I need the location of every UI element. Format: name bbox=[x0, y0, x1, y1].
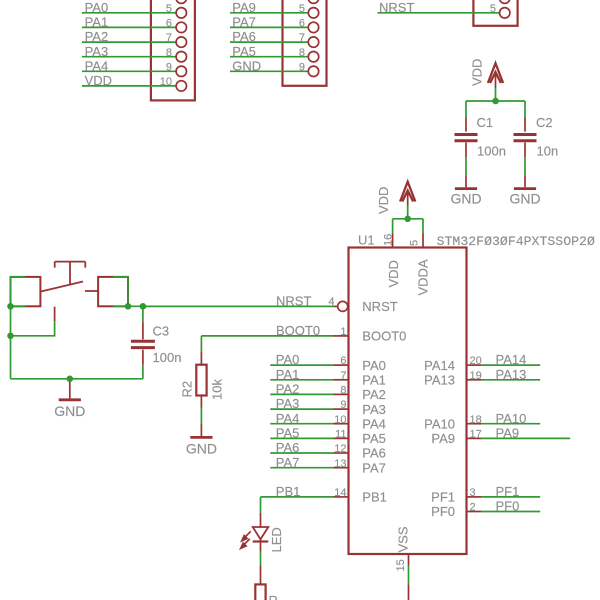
svg-text:9: 9 bbox=[166, 61, 172, 73]
wire PA3 J1 bbox=[82, 56, 176, 58]
wire PA5 J2 bbox=[230, 56, 308, 58]
wire VDD rail to caps bbox=[466, 88, 525, 117]
svg-text:PF0: PF0 bbox=[431, 504, 455, 519]
svg-text:PF1: PF1 bbox=[496, 484, 520, 499]
wire PB1 net bbox=[261, 497, 334, 513]
J3 pin circles bbox=[500, 0, 510, 18]
svg-text:C2: C2 bbox=[536, 115, 553, 130]
svg-text:PA6: PA6 bbox=[362, 446, 386, 461]
svg-text:PA6: PA6 bbox=[232, 29, 256, 44]
wire PA1 J1 bbox=[82, 26, 176, 28]
svg-text:PA7: PA7 bbox=[276, 455, 300, 470]
svg-text:PB1: PB1 bbox=[362, 490, 387, 505]
svg-text:2: 2 bbox=[470, 502, 476, 514]
svg-text:PA7: PA7 bbox=[232, 15, 256, 30]
svg-text:PA5: PA5 bbox=[232, 44, 256, 59]
svg-text:PA1: PA1 bbox=[276, 367, 300, 382]
svg-text:PA5: PA5 bbox=[276, 426, 300, 441]
resistor R2 bbox=[196, 352, 206, 408]
switch S1 left contact pad bbox=[11, 277, 41, 306]
wire BOOT0 net bbox=[201, 336, 333, 352]
svg-text:PF1: PF1 bbox=[431, 490, 455, 505]
svg-text:9: 9 bbox=[299, 61, 305, 73]
svg-text:PA4: PA4 bbox=[276, 411, 300, 426]
svg-text:PA2: PA2 bbox=[85, 29, 109, 44]
svg-text:6: 6 bbox=[340, 355, 346, 367]
svg-text:5: 5 bbox=[299, 3, 305, 15]
ground GND3 bbox=[59, 382, 81, 400]
wire GND J2 bbox=[230, 70, 308, 72]
connector J2 bbox=[283, 0, 327, 86]
svg-text:PA3: PA3 bbox=[362, 402, 386, 417]
J2 pin circles bbox=[308, 0, 318, 77]
switch S1 lever bbox=[40, 282, 83, 292]
switch S1 right contact stub bbox=[85, 290, 98, 292]
wire switch right loop bbox=[113, 277, 143, 306]
wire PA13 bbox=[482, 379, 541, 381]
wire VSS down bbox=[408, 566, 410, 585]
wire PA4 J1 bbox=[82, 70, 176, 72]
junction left rail a bbox=[7, 303, 14, 310]
svg-text:VDDA: VDDA bbox=[415, 259, 430, 295]
junction bottom rail bbox=[67, 376, 74, 383]
svg-text:10k: 10k bbox=[209, 379, 224, 400]
LED D1 bbox=[253, 513, 269, 552]
svg-text:6: 6 bbox=[166, 18, 172, 30]
svg-text:PA7: PA7 bbox=[362, 460, 386, 475]
wire PA6 J2 bbox=[230, 41, 308, 43]
junction VDD U1 bbox=[404, 216, 411, 223]
svg-text:PA1: PA1 bbox=[85, 15, 109, 30]
wire PA7 stub bbox=[270, 467, 333, 469]
svg-text:VDD: VDD bbox=[386, 260, 401, 287]
svg-text:10: 10 bbox=[160, 76, 172, 88]
svg-text:R2: R2 bbox=[179, 381, 194, 398]
switch S1 pole pin bbox=[54, 307, 56, 322]
wire PA6 stub bbox=[270, 452, 333, 454]
svg-text:PA0: PA0 bbox=[362, 358, 386, 373]
wire PA10 bbox=[482, 423, 541, 425]
svg-text:14: 14 bbox=[334, 487, 346, 499]
power VDD symbol P1 bbox=[488, 63, 503, 88]
svg-text:PA14: PA14 bbox=[496, 352, 527, 367]
svg-text:GND: GND bbox=[186, 441, 217, 457]
svg-text:PA14: PA14 bbox=[424, 358, 455, 373]
wire C2 to GND bbox=[524, 157, 526, 175]
J1 pin numbers 5-10 bbox=[160, 3, 172, 88]
svg-text:7: 7 bbox=[340, 370, 346, 382]
svg-text:STM32FØ3ØF4PXTSSOP2Ø: STM32FØ3ØF4PXTSSOP2Ø bbox=[437, 234, 595, 249]
ground GND1 bbox=[455, 176, 477, 189]
wire PA1 stub bbox=[270, 379, 333, 381]
svg-text:PA9: PA9 bbox=[496, 426, 520, 441]
connector J1 bbox=[151, 0, 195, 100]
svg-text:5: 5 bbox=[408, 240, 420, 246]
svg-text:GND: GND bbox=[450, 191, 481, 207]
svg-text:PA6: PA6 bbox=[276, 440, 300, 455]
svg-text:18: 18 bbox=[470, 414, 482, 426]
svg-text:20: 20 bbox=[470, 355, 482, 367]
capacitor C2 bbox=[514, 117, 537, 157]
wire VDD to U1 bbox=[393, 205, 423, 234]
ground GND2 bbox=[514, 176, 536, 189]
ground pin below VSS bbox=[408, 584, 410, 600]
svg-text:PA10: PA10 bbox=[496, 411, 527, 426]
switch S1 plunger bbox=[55, 262, 86, 285]
U1 right pin stubs bbox=[467, 365, 482, 511]
ground GND4 bbox=[190, 424, 212, 438]
svg-text:PA0: PA0 bbox=[85, 0, 109, 15]
J1 net labels bbox=[85, 0, 112, 88]
svg-text:8: 8 bbox=[340, 385, 346, 397]
wire PA3 stub bbox=[270, 408, 333, 410]
chip U1 outline bbox=[349, 248, 467, 555]
wire LED to R1 bbox=[260, 552, 262, 566]
U1 right pin names bbox=[424, 358, 455, 519]
connector J3 bbox=[473, 0, 517, 26]
svg-text:13: 13 bbox=[334, 458, 346, 470]
svg-text:C3: C3 bbox=[153, 324, 170, 339]
power VDD symbol P2 bbox=[400, 182, 415, 207]
wire PF1 bbox=[482, 496, 541, 498]
U1 left pin names bbox=[362, 299, 406, 505]
svg-text:7: 7 bbox=[299, 32, 305, 44]
wire PA9 bbox=[482, 437, 571, 439]
wire R2 to GND bbox=[200, 408, 202, 424]
resistor R1 bbox=[255, 566, 265, 600]
capacitor C3 bbox=[131, 322, 155, 365]
svg-text:PA13: PA13 bbox=[424, 373, 455, 388]
svg-text:BOOT0: BOOT0 bbox=[362, 329, 406, 344]
wire PA0 J1 bbox=[82, 12, 176, 14]
wire VDD J1 bbox=[82, 85, 176, 87]
svg-text:10: 10 bbox=[334, 414, 346, 426]
svg-text:PF0: PF0 bbox=[496, 499, 520, 514]
wire PA5 stub bbox=[270, 437, 333, 439]
wire PA0 stub bbox=[270, 364, 333, 366]
svg-text:11: 11 bbox=[335, 429, 346, 441]
wire PF0 bbox=[482, 511, 541, 513]
wire NRST J3 bbox=[378, 12, 500, 14]
U1 left pin stubs bbox=[334, 306, 349, 497]
wire PA2 J1 bbox=[82, 41, 176, 43]
right net labels bbox=[496, 352, 527, 513]
svg-text:100n: 100n bbox=[477, 144, 506, 159]
svg-text:8: 8 bbox=[299, 47, 305, 59]
svg-text:PA3: PA3 bbox=[276, 396, 300, 411]
U1 top pin stubs bbox=[393, 234, 423, 248]
svg-text:100n: 100n bbox=[153, 350, 182, 365]
wire NRST net bbox=[143, 305, 334, 307]
svg-text:PA9: PA9 bbox=[232, 0, 256, 15]
svg-text:7: 7 bbox=[166, 32, 172, 44]
wire PA4 stub bbox=[270, 423, 333, 425]
svg-text:3: 3 bbox=[470, 487, 476, 499]
svg-text:12: 12 bbox=[334, 443, 346, 455]
junction VDD rail bbox=[492, 98, 499, 105]
svg-text:PA1: PA1 bbox=[362, 373, 386, 388]
svg-text:PB1: PB1 bbox=[276, 484, 301, 499]
svg-text:NRST: NRST bbox=[276, 294, 311, 309]
junction left rail b bbox=[7, 333, 14, 340]
capacitor C1 bbox=[455, 117, 478, 157]
svg-text:PA4: PA4 bbox=[362, 416, 386, 431]
svg-text:PA2: PA2 bbox=[362, 387, 386, 402]
wire PA2 stub bbox=[270, 393, 333, 395]
junction C3 top bbox=[140, 303, 147, 310]
J2 pin numbers 5-9 bbox=[299, 3, 305, 74]
U1 NRST inversion bubble bbox=[338, 301, 348, 311]
svg-text:PA2: PA2 bbox=[276, 382, 300, 397]
left net labels PA0-PA7 bbox=[276, 352, 300, 470]
svg-text:5: 5 bbox=[166, 3, 172, 15]
svg-text:19: 19 bbox=[470, 370, 482, 382]
wire C1 to GND bbox=[465, 157, 467, 175]
svg-text:R: R bbox=[269, 593, 278, 600]
svg-text:C1: C1 bbox=[477, 115, 494, 130]
svg-text:VDD: VDD bbox=[85, 73, 112, 88]
svg-text:16: 16 bbox=[383, 234, 395, 246]
switch S1 right contact pad bbox=[98, 277, 128, 306]
svg-text:1: 1 bbox=[340, 326, 346, 338]
svg-text:NRST: NRST bbox=[379, 0, 414, 15]
svg-text:8: 8 bbox=[166, 47, 172, 59]
svg-text:VDD: VDD bbox=[470, 59, 485, 86]
svg-text:GND: GND bbox=[54, 403, 85, 419]
U1 right pin numbers bbox=[470, 355, 482, 513]
U1 bottom pin stub VSS bbox=[408, 554, 410, 566]
svg-text:PA5: PA5 bbox=[362, 431, 386, 446]
svg-text:NRST: NRST bbox=[362, 299, 397, 314]
svg-text:10n: 10n bbox=[537, 144, 559, 159]
svg-text:PA3: PA3 bbox=[85, 44, 109, 59]
J2 net labels bbox=[232, 0, 261, 73]
wire bottom rail bbox=[11, 306, 143, 379]
svg-text:PA4: PA4 bbox=[85, 58, 109, 73]
junction right pad bbox=[125, 303, 132, 310]
svg-text:BOOT0: BOOT0 bbox=[276, 323, 320, 338]
wire PA14 bbox=[482, 364, 541, 366]
J1 pin circles bbox=[176, 0, 186, 91]
svg-text:GND: GND bbox=[232, 58, 261, 73]
svg-text:17: 17 bbox=[470, 429, 482, 441]
svg-text:VSS: VSS bbox=[396, 526, 411, 552]
U1 left pin numbers bbox=[328, 296, 346, 499]
LED arrows bbox=[241, 531, 251, 548]
svg-text:PA9: PA9 bbox=[431, 431, 455, 446]
svg-text:U1: U1 bbox=[358, 233, 375, 248]
svg-text:9: 9 bbox=[340, 399, 346, 411]
svg-text:6: 6 bbox=[299, 18, 305, 30]
wire PA9 J2 bbox=[230, 12, 308, 14]
svg-text:GND: GND bbox=[509, 191, 540, 207]
svg-text:PA13: PA13 bbox=[496, 367, 527, 382]
svg-text:VDD: VDD bbox=[376, 187, 391, 214]
svg-text:LED: LED bbox=[269, 527, 284, 552]
wire switch left loop bbox=[11, 277, 55, 379]
svg-text:PA0: PA0 bbox=[276, 352, 300, 367]
svg-text:4: 4 bbox=[328, 296, 334, 308]
wire PA7 J2 bbox=[230, 26, 308, 28]
svg-text:5: 5 bbox=[490, 3, 496, 15]
svg-text:PA10: PA10 bbox=[424, 416, 455, 431]
svg-text:15: 15 bbox=[395, 559, 407, 571]
